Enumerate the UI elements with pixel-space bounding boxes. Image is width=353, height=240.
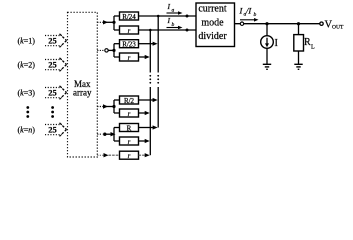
svg-text:25: 25: [48, 35, 57, 45]
wire r3 to bus b: [139, 111, 150, 115]
label Ia: [167, 2, 183, 15]
svg-text:R/23: R/23: [122, 41, 136, 49]
bus arrow 25 (k=n): [45, 123, 67, 137]
label Ib: [167, 16, 183, 29]
bus arrow 25 (k=1): [45, 34, 67, 48]
svg-text:R: R: [127, 124, 132, 132]
junction dot Ib at divider: [186, 29, 189, 32]
label Ia/Ib: [239, 6, 259, 22]
wire R/23 to bus a: [139, 42, 158, 46]
svg-text:R/2: R/2: [124, 97, 135, 105]
resistor RL: [294, 24, 315, 64]
junction dot Ia bus tee: [157, 15, 160, 18]
resistor r5: [120, 151, 139, 160]
node bracket pair3: [114, 100, 120, 113]
svg-text:OUT: OUT: [332, 25, 344, 31]
wire r5 to bus b dashed: [139, 153, 150, 157]
svg-text:(k=3): (k=3): [18, 89, 36, 98]
svg-text:/I: /I: [245, 6, 252, 16]
wire r4 to bus b: [139, 139, 150, 143]
svg-text:R/24: R/24: [122, 13, 136, 21]
svg-text:25: 25: [48, 59, 57, 69]
resistor r2: [120, 53, 139, 62]
svg-text:divider: divider: [198, 31, 227, 42]
max array block: [68, 12, 98, 157]
ground RL: [294, 64, 302, 69]
bus arrow 25 (k=3): [45, 86, 67, 100]
svg-text:R: R: [304, 37, 311, 48]
wire r2 to bus b: [139, 55, 150, 59]
ground current source: [263, 64, 271, 69]
svg-text:r: r: [128, 54, 131, 62]
resistor R/23: [120, 40, 139, 49]
junction node current source: [265, 22, 268, 25]
wire R to bus a: [139, 125, 158, 129]
svg-text:25: 25: [48, 87, 57, 97]
resistor r1: [120, 26, 139, 35]
bus continuation dots: [149, 75, 159, 84]
output wire: [235, 23, 321, 25]
svg-text:I: I: [167, 2, 171, 11]
svg-text:(k=1): (k=1): [18, 37, 36, 46]
svg-text:I: I: [275, 38, 278, 49]
wire Ib from r1 to divider: [139, 29, 197, 31]
wire R/2 to bus a: [139, 98, 158, 102]
node bracket pair1: [114, 16, 120, 30]
svg-text:r: r: [128, 27, 131, 35]
bus line a vertical: [157, 16, 159, 128]
node bracket pair4: [114, 128, 120, 142]
resistor R/2: [120, 96, 139, 105]
output terminal Vout: [320, 20, 344, 31]
output terminal circle at divider: [240, 22, 243, 25]
node bracket pair2: [114, 44, 120, 57]
resistor r4: [120, 137, 139, 146]
resistor r3: [120, 109, 139, 118]
bus line b vertical: [149, 30, 151, 155]
svg-text:I: I: [167, 16, 171, 25]
current mode divider block: [196, 3, 235, 47]
svg-text:r: r: [128, 152, 131, 160]
junction dot Ib bus tee: [149, 29, 152, 32]
wire Ia from R/24 to divider: [139, 15, 197, 17]
svg-text:mode: mode: [201, 18, 224, 29]
wire pair1 input from max array: [97, 20, 115, 24]
svg-text:array: array: [73, 88, 92, 98]
resistor R/24: [120, 12, 139, 21]
current source I: [261, 24, 278, 64]
svg-text:(k=2): (k=2): [18, 61, 36, 70]
svg-text:r: r: [128, 110, 131, 118]
svg-text:b: b: [254, 12, 257, 18]
input continuation dots: [26, 106, 54, 118]
svg-text:current: current: [198, 4, 227, 15]
junction dot Ia at divider: [186, 15, 189, 18]
wire row5 input dashed: [97, 153, 119, 157]
svg-text:25: 25: [48, 124, 57, 134]
bus arrow 25 (k=2): [45, 58, 67, 72]
svg-text:L: L: [311, 45, 315, 51]
svg-text:r: r: [128, 138, 131, 146]
wire pair2 input from max array: [97, 49, 115, 52]
wire pair4 input from max array: [97, 132, 115, 136]
wire pair3 input from max array: [97, 104, 115, 108]
svg-text:(k=n): (k=n): [18, 126, 36, 135]
junction node RL: [297, 22, 300, 25]
resistor R: [120, 124, 139, 133]
